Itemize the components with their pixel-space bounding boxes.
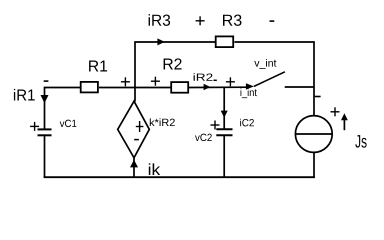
minus sign left corner xyxy=(44,80,49,82)
minus sign in diamond xyxy=(134,139,139,141)
arrow Js (up, external) xyxy=(341,113,348,130)
arrow iR2 (right) xyxy=(204,84,211,91)
arrow switch (right) xyxy=(246,83,254,89)
wire: bottom rail xyxy=(44,176,315,178)
label vC2 xyxy=(195,134,212,141)
minus sign top row (R3 right) xyxy=(270,20,275,22)
wire: R1 to R2 xyxy=(99,87,171,89)
arrow iC2 (down) xyxy=(221,111,228,118)
label iC2 xyxy=(240,119,254,127)
label iR1 xyxy=(14,89,35,101)
wire: Js bottom to bottom-right corner xyxy=(313,152,315,178)
label Js xyxy=(355,135,366,148)
wire: C2 branch from main wire to C2 top plate xyxy=(223,88,225,130)
wire: C1 bottom plate to bottom rail xyxy=(44,135,46,177)
resistor R1 xyxy=(81,82,98,93)
wire: C2 bottom plate to bottom rail xyxy=(223,135,225,177)
plus sign vC1 xyxy=(30,122,39,131)
label R2 xyxy=(164,58,182,69)
plus sign left of R2 xyxy=(151,77,160,86)
dependent source diamond k*iR2 xyxy=(118,101,150,158)
plus sign v_int left xyxy=(226,77,235,86)
plus sign top row (R3 left) xyxy=(196,16,205,25)
minus sign v_int right xyxy=(315,96,321,98)
label ik xyxy=(149,163,160,175)
wire: R2 to switch arrow xyxy=(189,86,248,88)
plus sign vC2 xyxy=(211,121,220,130)
capacitor C2 xyxy=(216,129,232,135)
label R1 xyxy=(89,60,107,71)
plus sign in diamond xyxy=(136,121,144,132)
wire: diamond bottom to bottom rail xyxy=(133,158,135,177)
arrow iR1 (down) xyxy=(41,95,49,103)
resistor R3 xyxy=(216,36,234,47)
label v_int xyxy=(254,59,276,69)
resistor R2 xyxy=(171,82,188,93)
arrow iR3 (right) xyxy=(157,38,164,45)
arrow ik (up) xyxy=(130,160,138,168)
minus sign after iR2 xyxy=(214,79,217,81)
label iR3 xyxy=(149,14,171,26)
label kiR2 xyxy=(150,118,175,126)
current source Js circle xyxy=(295,116,332,153)
capacitor C1 xyxy=(38,129,52,135)
switch v_int blade xyxy=(254,72,285,87)
wire: switch right contact xyxy=(285,86,314,88)
label i_int xyxy=(241,88,257,98)
label iR2 xyxy=(194,73,213,81)
plus sign right of R1 xyxy=(121,77,130,86)
wire: R3 to top-right corner down to Js xyxy=(234,42,314,116)
label R3 xyxy=(223,15,242,26)
label vC1 xyxy=(60,120,77,127)
wire: left corner horizontal to R1 xyxy=(45,88,81,130)
wire: top branch vertical and top wire to R3 xyxy=(135,42,216,102)
plus sign Js xyxy=(331,107,340,116)
